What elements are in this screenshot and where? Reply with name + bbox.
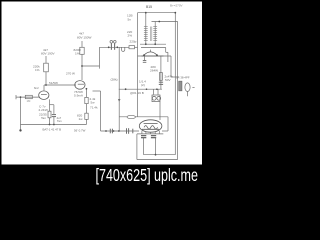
svg-text:220p: 220p xyxy=(130,40,137,44)
svg-text:Tan: Tan xyxy=(57,119,62,123)
svg-text:5n: 5n xyxy=(128,18,132,22)
svg-text:3R 38-4PF: 3R 38-4PF xyxy=(176,76,190,80)
svg-text:270 W: 270 W xyxy=(66,72,75,76)
svg-text:B15: B15 xyxy=(146,5,152,9)
svg-text:6n2: 6n2 xyxy=(34,86,39,90)
svg-text:56' 0.7W: 56' 0.7W xyxy=(74,129,86,133)
svg-text:1%: 1% xyxy=(35,68,40,72)
svg-text:Tan: Tan xyxy=(41,116,46,120)
svg-text:@#1 19 B: @#1 19 B xyxy=(130,91,144,95)
svg-text:1%: 1% xyxy=(75,52,80,56)
svg-text:80V 190V: 80V 190V xyxy=(41,52,56,56)
svg-text:80V 150W: 80V 150W xyxy=(77,36,92,40)
svg-text:[740x625] uplc.me: [740x625] uplc.me xyxy=(96,166,198,186)
svg-text:BAT-1 41 47 B: BAT-1 41 47 B xyxy=(43,128,62,132)
svg-text:5.9mA: 5.9mA xyxy=(74,94,84,98)
svg-text:71.4k: 71.4k xyxy=(90,106,98,110)
svg-text:2.2KW: 2.2KW xyxy=(39,108,48,112)
svg-text:1M: 1M xyxy=(27,99,32,103)
svg-text:B+=270V: B+=270V xyxy=(170,3,183,7)
svg-text:(2): (2) xyxy=(141,83,145,87)
svg-text:(28k): (28k) xyxy=(111,78,118,82)
svg-text:50V: 50V xyxy=(165,78,171,82)
svg-text:51/5W: 51/5W xyxy=(49,81,58,85)
svg-text:2%: 2% xyxy=(128,34,133,38)
svg-text:264W: 264W xyxy=(150,69,158,73)
